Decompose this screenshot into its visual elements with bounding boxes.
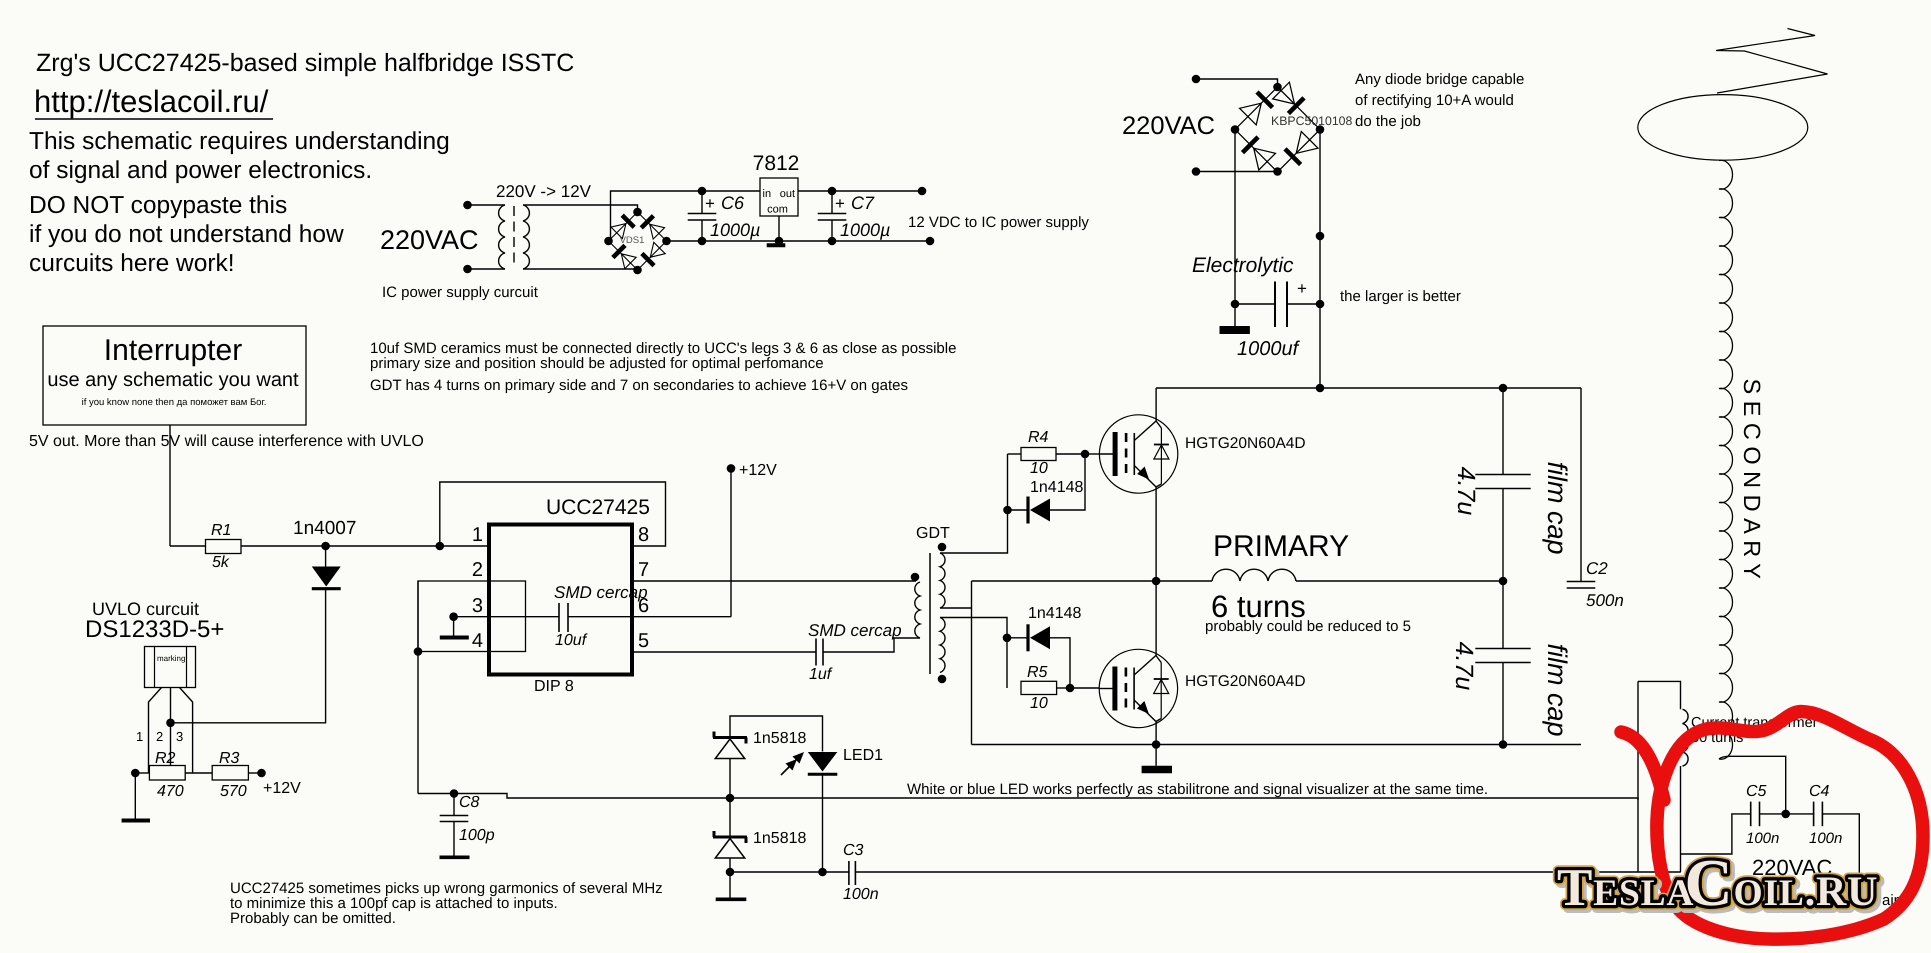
node C6 bottom [698, 237, 707, 246]
svg-text:12 VDC to IC power supply: 12 VDC to IC power supply [908, 214, 1089, 231]
node C7 top [828, 187, 837, 196]
node film cap top [1499, 384, 1508, 393]
capacitor C4 [1813, 802, 1815, 827]
inductor primary 6 turns [1156, 580, 1212, 582]
GDT bottom secondary bottom pin [938, 675, 947, 684]
wire bottom rail [1156, 744, 1581, 746]
svg-text:5V out. More than 5V will caus: 5V out. More than 5V will cause interfer… [29, 433, 424, 450]
wire 1uf to GDT primary bottom [823, 638, 920, 652]
svg-text:probably could be reduced to 5: probably could be reduced to 5 [1205, 618, 1411, 635]
svg-text:1000µ: 1000µ [840, 220, 890, 240]
LED light arrows [788, 756, 800, 768]
node DS1233 pin2 output [166, 719, 175, 728]
current transformer winding [1683, 709, 1689, 766]
svg-text:Electrolytic: Electrolytic [1192, 254, 1294, 277]
node C6 top [698, 187, 707, 196]
wire CT right edge lower [1680, 766, 1682, 872]
node lower 1n4148 left [1003, 634, 1012, 643]
wire +12V drop to pin6 [730, 468, 732, 616]
transformer T1 terminals [463, 201, 472, 210]
chip UCC27425 DIP8 box [489, 525, 632, 675]
svg-text:HGTG20N60A4D: HGTG20N60A4D [1185, 435, 1306, 452]
svg-text:primary size and position shou: primary size and position should be adju… [370, 355, 824, 372]
secondary coil [1719, 160, 1733, 759]
transformer T1 core [513, 206, 515, 268]
node R4 right / gate [1081, 450, 1090, 459]
resistor R3 [212, 766, 248, 781]
wire pin8 to pin1 loop [440, 482, 666, 546]
svg-text:of signal and power electronic: of signal and power electronics. [29, 157, 372, 184]
svg-text:+12V: +12V [739, 462, 777, 479]
svg-text:GDT: GDT [916, 525, 950, 542]
svg-text:5: 5 [638, 630, 649, 652]
node rail/electrolytic junction [1316, 384, 1325, 393]
svg-text:5k: 5k [212, 554, 230, 571]
svg-text:of rectifying 10+A would: of rectifying 10+A would [1355, 92, 1514, 109]
svg-text:GDT has 4 turns on primary sid: GDT has 4 turns on primary side and 7 on… [370, 377, 908, 394]
capacitor C2 [1567, 581, 1596, 583]
node clamp mid [726, 794, 735, 803]
svg-text:if you do not understand how: if you do not understand how [29, 221, 344, 248]
wire C5-C4 [1760, 813, 1814, 815]
svg-text:1000µ: 1000µ [710, 220, 760, 240]
node C5/C4 junction [1781, 810, 1790, 819]
capacitor C6 [701, 191, 703, 214]
capacitor C5 [1750, 802, 1752, 827]
svg-text:marking: marking [157, 654, 185, 663]
DS1233 pin 3 lead [180, 688, 193, 774]
svg-text:curcuits here work!: curcuits here work! [29, 250, 235, 277]
svg-text:IC power supply curcuit: IC power supply curcuit [382, 284, 539, 301]
svg-text:4: 4 [472, 630, 483, 652]
svg-text:C5: C5 [1746, 783, 1767, 800]
regulator 7812 box [760, 178, 798, 216]
node upper 1n4148 left [1003, 506, 1012, 515]
node 1n4007 anode [321, 542, 330, 551]
svg-text:1n5818: 1n5818 [753, 830, 806, 847]
svg-text:100p: 100p [459, 827, 495, 844]
wire bridge left corner down to electrolytic (crossover) [1234, 130, 1236, 327]
capacitor 1uf SMD cercap [815, 639, 817, 666]
svg-text:10: 10 [1030, 695, 1048, 712]
wire pin7 to GDT primary [632, 580, 916, 582]
diode bridge VDS1 [609, 212, 667, 270]
transformer T1 primary winding [499, 205, 505, 269]
node LED bottom [818, 868, 827, 877]
node electrolytic left [1231, 300, 1240, 309]
svg-text:do the job: do the job [1355, 113, 1421, 130]
spark zigzag [1716, 29, 1828, 94]
resistor R1 [170, 545, 206, 547]
svg-text:10uf: 10uf [555, 632, 588, 649]
wire gate upper [1085, 453, 1100, 455]
svg-text:KBPC5010108: KBPC5010108 [1271, 114, 1353, 128]
wire bottom rail from GDT drop [972, 744, 1157, 746]
svg-text:+12V: +12V [263, 780, 301, 797]
wire C2 branch [1580, 388, 1582, 582]
package DS1233 [145, 647, 196, 688]
capacitor film cap lower 4.7u [1502, 581, 1504, 649]
svg-text:PRIMARY: PRIMARY [1213, 530, 1349, 563]
node clamp bottom [726, 868, 735, 877]
wire Q1 emitter to mid rail [1155, 487, 1157, 581]
node C8 junction [450, 789, 459, 798]
node bottom rail emitter [1152, 740, 1161, 749]
svg-text:1n5818: 1n5818 [753, 730, 806, 747]
svg-text:DS1233D-5+: DS1233D-5+ [85, 616, 224, 643]
wire mains bottom to bridge [1196, 171, 1278, 173]
capacitor electrolytic 1000uf [1235, 303, 1275, 305]
wire mains top to bridge [1196, 79, 1278, 87]
svg-text:C7: C7 [851, 193, 875, 213]
diode bridge KBPC5010108 [1235, 87, 1320, 172]
wire VDS1 right corner to -rail [667, 240, 931, 242]
svg-text:1n4148: 1n4148 [1030, 479, 1083, 496]
DS1233 pin 1 lead [149, 688, 162, 774]
node pin1 junction [436, 542, 445, 551]
svg-text:220V -> 12V: 220V -> 12V [496, 182, 592, 201]
diode 1n4007 [325, 546, 327, 567]
GDT bottom secondary winding [940, 618, 945, 673]
node mid rail [1152, 577, 1161, 586]
wire pins2/4 down to feedback [417, 581, 419, 794]
svg-text:8: 8 [638, 524, 649, 546]
wire clamp top [730, 716, 823, 752]
svg-text:R2: R2 [155, 750, 176, 767]
Interrupter box [43, 326, 306, 425]
wire R2-R3 [185, 772, 212, 774]
ground Q2 emitter [1155, 745, 1157, 766]
svg-text:1n4148: 1n4148 [1028, 605, 1081, 622]
svg-text:R1: R1 [211, 522, 231, 539]
svg-text:3: 3 [472, 595, 483, 617]
GDT primary top pin [911, 573, 920, 582]
wire R1 to pin1 [241, 545, 489, 547]
svg-text:C6: C6 [721, 193, 745, 213]
svg-text:+: + [835, 194, 845, 213]
svg-text:+: + [1297, 279, 1307, 298]
svg-text:100n: 100n [843, 886, 879, 903]
svg-text:DIP 8: DIP 8 [534, 678, 574, 695]
svg-text:DO NOT copypaste this: DO NOT copypaste this [29, 192, 287, 219]
svg-text:4.7u: 4.7u [1450, 642, 1478, 691]
svg-text:the larger is better: the larger is better [1340, 288, 1461, 305]
node C7 bottom [828, 237, 837, 246]
svg-text:R5: R5 [1027, 664, 1048, 681]
svg-text:Interrupter: Interrupter [104, 334, 242, 367]
wire Q1 collector to +rail [1155, 388, 1157, 421]
wire pins 2-4 rectangle [418, 581, 526, 652]
svg-text:1uf: 1uf [809, 666, 833, 683]
wire gate network to top secondary [940, 454, 1008, 553]
wire C3 line [730, 871, 849, 873]
diode 1n5818 lower [729, 798, 731, 837]
resistor R5 [1021, 681, 1057, 694]
node R3 right [257, 769, 266, 778]
diode 1n5818 upper [713, 736, 747, 739]
wire pin3 ground [449, 612, 458, 621]
svg-text:1: 1 [136, 729, 143, 744]
resistor R4 [1008, 453, 1022, 455]
svg-text:White or blue LED works perfec: White or blue LED works perfectly as sta… [907, 781, 1488, 798]
node +12 rail end [918, 187, 927, 196]
ground clamp [729, 872, 731, 898]
transistor Q1 HGTG20N60A4D [1099, 415, 1177, 493]
svg-text:C2: C2 [1586, 559, 1608, 578]
svg-text:film cap: film cap [1542, 461, 1572, 554]
svg-text:500n: 500n [1586, 591, 1624, 610]
svg-text:VDS1: VDS1 [620, 235, 645, 246]
node electrolytic right [1316, 300, 1325, 309]
wire bottom secondary top lead [940, 618, 1007, 689]
GDT primary winding [915, 582, 920, 638]
wire 7812 out to C7 [798, 190, 922, 192]
wire C5 left branch [1681, 814, 1751, 854]
GDT top secondary winding [940, 553, 945, 608]
capacitor C3 [848, 861, 850, 885]
node R5 right / gate [1066, 684, 1075, 693]
wire Q2 emitter to bottom rail [1155, 722, 1157, 745]
svg-text:if you know none then да помож: if you know none then да поможет вам Бог… [82, 397, 267, 408]
svg-text:220VAC: 220VAC [380, 225, 479, 255]
svg-text:film cap: film cap [1542, 643, 1572, 736]
wire top rail [1156, 387, 1581, 389]
svg-text:1: 1 [472, 524, 483, 546]
capacitor film cap upper 4.7u [1502, 388, 1504, 475]
svg-text:R4: R4 [1028, 429, 1049, 446]
svg-text:This schematic requires unders: This schematic requires understanding [29, 128, 450, 155]
svg-text:1000uf: 1000uf [1237, 338, 1301, 360]
svg-text:http://teslacoil.ru/: http://teslacoil.ru/ [34, 84, 269, 119]
svg-text:10: 10 [1030, 460, 1048, 477]
current transformer loop [1638, 681, 1681, 709]
node on right drop [1316, 232, 1325, 241]
node film cap mid [1499, 577, 1508, 586]
mains terminals [1192, 75, 1201, 84]
svg-text:Probably can be omitted.: Probably can be omitted. [230, 910, 396, 927]
svg-text:7812: 7812 [753, 152, 800, 175]
ground electrolytic [1220, 326, 1250, 334]
svg-text:Zrg's UCC27425-based simple ha: Zrg's UCC27425-based simple halfbridge I… [36, 49, 574, 77]
svg-text:LED1: LED1 [843, 747, 883, 764]
wire VDS1 left corner up to +rail (crossover) [609, 240, 611, 242]
svg-text:570: 570 [220, 783, 247, 800]
wire C4 right branch [1822, 814, 1859, 884]
logo TeslaCoil.RU [1560, 849, 1881, 923]
svg-text:UCC27425: UCC27425 [546, 496, 650, 519]
capacitor C8 [453, 794, 455, 816]
GDT top secondary top pin [938, 543, 947, 552]
svg-text:470: 470 [157, 783, 184, 800]
svg-text:100n: 100n [1809, 830, 1842, 847]
wire 1n4007 cathode down to DS1233 pin2 [171, 589, 326, 723]
diode 1n4148 lower [1007, 637, 1028, 639]
svg-text:2: 2 [156, 729, 163, 744]
svg-text:SMD cercap: SMD cercap [808, 621, 902, 640]
capacitor 10uf SMD inside chip [558, 603, 560, 632]
diode 1n4148 upper [1008, 509, 1029, 511]
wire feedback line [418, 794, 1638, 801]
svg-text:4.7u: 4.7u [1452, 467, 1480, 516]
node R2 left / ground [131, 769, 140, 778]
svg-text:220VAC: 220VAC [1122, 112, 1215, 140]
wire bridge right corner down to rail [1319, 130, 1321, 389]
node -rail end [926, 237, 935, 246]
wire T1 primary leads [468, 204, 506, 206]
svg-text:C8: C8 [459, 794, 480, 811]
svg-text:+: + [705, 194, 715, 213]
svg-text:7: 7 [638, 559, 649, 581]
wire secondary bottom to C5/C4 [1719, 756, 1786, 814]
svg-text:3: 3 [176, 729, 183, 744]
node film cap bottom [1499, 740, 1508, 749]
wire T1 secondary bottom to bridge [523, 269, 638, 270]
svg-text:SMD cercap: SMD cercap [554, 583, 648, 602]
wire T1 secondary top to bridge [523, 205, 638, 212]
wire vertical GDT drop [971, 581, 973, 745]
node pin4 junction [414, 647, 423, 656]
svg-text:use any schematic you want: use any schematic you want [47, 369, 299, 391]
wire top secondary bottom to midnode drop [940, 607, 972, 609]
svg-text:in: in [763, 188, 772, 200]
wire C3 to current transformer [855, 871, 1680, 873]
wire Q2 collector to mid rail [1155, 581, 1157, 656]
DS1233 pin 2 lead [170, 688, 172, 766]
LED1 [808, 752, 838, 772]
wire pin3-6 through chip [454, 616, 559, 618]
red annotation circle [1657, 712, 1923, 940]
wire interrupter to R1 [169, 425, 171, 546]
toroid [1638, 95, 1808, 161]
transformer T1 secondary winding [523, 205, 529, 269]
svg-text:Any diode bridge capable: Any diode bridge capable [1355, 71, 1524, 88]
GDT core [929, 553, 931, 674]
svg-text:SECONDARY: SECONDARY [1739, 379, 1765, 586]
svg-text:com: com [767, 204, 788, 216]
svg-text:HGTG20N60A4D: HGTG20N60A4D [1185, 673, 1306, 690]
svg-text:C3: C3 [843, 842, 864, 859]
svg-text:100n: 100n [1746, 830, 1779, 847]
ground 7812 com [778, 216, 780, 241]
capacitor C7 [831, 191, 833, 214]
wire pin5 to 1uf cap [632, 651, 816, 653]
svg-text:C4: C4 [1809, 783, 1830, 800]
transistor Q2 HGTG20N60A4D [1099, 649, 1177, 727]
resistor R2 [135, 772, 149, 774]
svg-text:2: 2 [472, 559, 483, 581]
svg-text:R3: R3 [219, 750, 240, 767]
wire mid rail from GDT [972, 580, 1157, 582]
svg-text:1n4007: 1n4007 [293, 518, 356, 539]
svg-text:out: out [780, 188, 795, 200]
